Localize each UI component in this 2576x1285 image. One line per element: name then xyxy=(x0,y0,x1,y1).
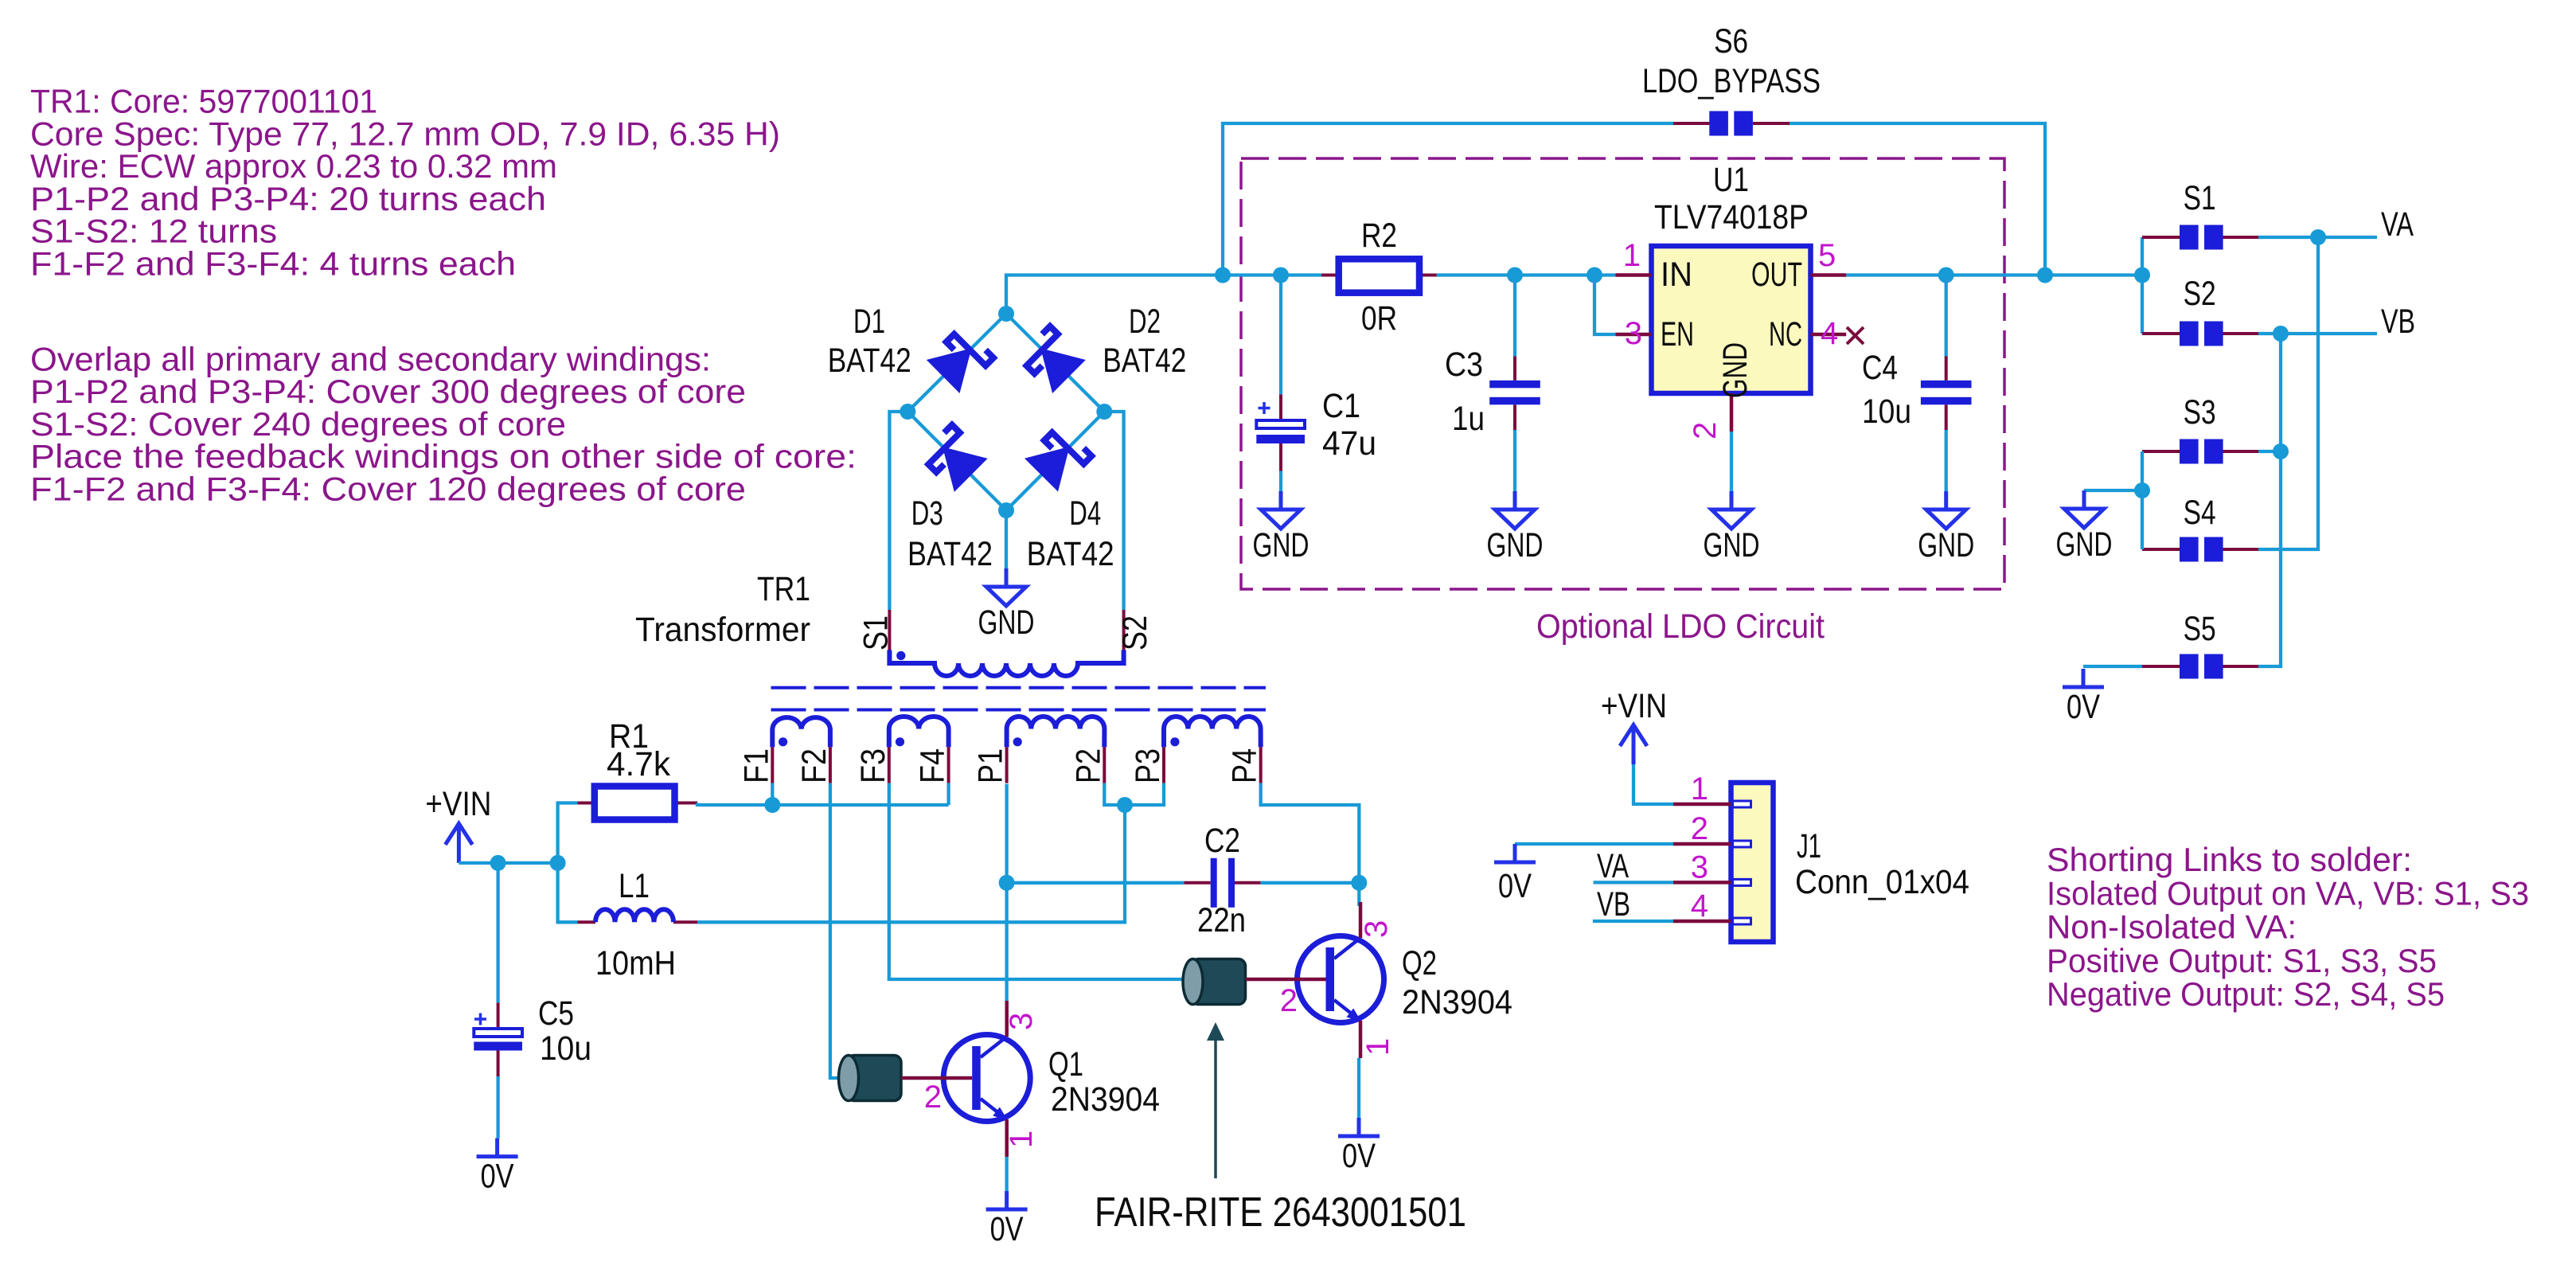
svg-text:+VIN: +VIN xyxy=(425,785,491,823)
svg-text:0R: 0R xyxy=(1361,299,1397,338)
wire S3 output xyxy=(2258,450,2281,453)
junction P2/P3 tap xyxy=(1117,797,1133,813)
U1 pin 4 NC xyxy=(1811,333,1847,337)
svg-text:0V: 0V xyxy=(990,1210,1024,1248)
wire R2 to U1 IN xyxy=(1437,273,1616,276)
svg-text:S5: S5 xyxy=(2184,610,2216,648)
wire GND tap xyxy=(2084,489,2142,492)
TR1 winding P3-P4 xyxy=(1164,717,1261,747)
resistor R2 xyxy=(1339,259,1419,292)
U1 pin 2 GND xyxy=(1730,393,1734,432)
J1 pin 1 xyxy=(1673,803,1731,807)
C5 plus sign xyxy=(474,1017,486,1021)
TR1 core line 2 xyxy=(771,709,1267,712)
J1 pin 2 xyxy=(1673,842,1731,846)
wire C3 to GND xyxy=(1513,430,1516,491)
jumper S5 pins xyxy=(2142,665,2180,668)
optional LDO circuit dashed box xyxy=(1241,158,2004,589)
svg-text:FAIR-RITE 2643001501: FAIR-RITE 2643001501 xyxy=(1095,1189,1466,1236)
svg-text:4.7k: 4.7k xyxy=(607,745,670,783)
wire F3 drop to Q2 bead xyxy=(889,783,1184,979)
wire P2 elbow xyxy=(1104,783,1125,805)
svg-text:D3: D3 xyxy=(911,494,943,533)
svg-text:F3: F3 xyxy=(854,748,892,783)
svg-text:+VIN: +VIN xyxy=(1601,687,1667,725)
capacitor C3 pins xyxy=(1513,357,1516,381)
svg-text:1: 1 xyxy=(1691,771,1708,807)
wire bridge edge D3 xyxy=(907,412,1006,510)
IC U1 body xyxy=(1652,246,1811,393)
U1 pin 1 IN xyxy=(1616,273,1652,277)
wire F4 elbow xyxy=(946,783,950,805)
wire C2 rail right xyxy=(1261,881,1360,885)
wire bridge output riser xyxy=(1006,275,1321,314)
capacitor C5 pins xyxy=(497,1002,500,1028)
wire branch up to R1 xyxy=(558,803,578,863)
svg-text:P2: P2 xyxy=(1069,748,1107,783)
svg-text:S6: S6 xyxy=(1714,22,1748,61)
diode D2 BAT42 xyxy=(1019,326,1084,392)
jumper S1 xyxy=(2180,225,2199,250)
wire S1/S2 input branch xyxy=(2141,237,2144,334)
wire C4 to GND xyxy=(1945,430,1948,491)
ground symbol C3 xyxy=(1513,491,1517,510)
svg-text:C3: C3 xyxy=(1445,346,1483,384)
svg-text:S4: S4 xyxy=(2184,494,2216,532)
capacitor C1 (polarized) xyxy=(1256,420,1305,428)
junction C5 tap xyxy=(490,855,506,871)
svg-text:2: 2 xyxy=(1280,983,1298,1018)
svg-text:0V: 0V xyxy=(481,1158,514,1196)
jumper S3 xyxy=(2180,439,2199,464)
wire S5 input from 0V xyxy=(2083,665,2142,668)
capacitor C4 xyxy=(1921,381,1972,389)
jumper S4 xyxy=(2180,537,2199,562)
jumper S6 xyxy=(1709,111,1728,136)
svg-text:47u: 47u xyxy=(1322,424,1376,463)
svg-text:J1: J1 xyxy=(1797,827,1821,865)
TR1 winding F1-F2 xyxy=(772,717,830,747)
svg-text:Conn_01x04: Conn_01x04 xyxy=(1795,863,1969,901)
svg-text:0V: 0V xyxy=(1498,867,1532,905)
wire bridge edge D2 xyxy=(1006,314,1104,412)
TR1 winding F3-F4 xyxy=(889,717,949,747)
svg-text:D1: D1 xyxy=(853,303,885,341)
capacitor C5 (polarized) xyxy=(474,1029,522,1037)
svg-text:4: 4 xyxy=(1821,316,1838,351)
svg-text:Optional LDO Circuit: Optional LDO Circuit xyxy=(1536,607,1825,646)
svg-text:C5: C5 xyxy=(538,994,574,1033)
svg-text:L1: L1 xyxy=(619,867,650,905)
wire VA vertical to S4 xyxy=(2258,237,2318,549)
power symbol 0V Q2 xyxy=(1357,1118,1361,1136)
wire S1 output to VA xyxy=(2258,236,2377,239)
TR1 polarity dot F1 xyxy=(779,737,787,746)
svg-text:U1: U1 xyxy=(1713,161,1749,199)
junction bridge left xyxy=(900,404,915,420)
svg-text:TR1: TR1 xyxy=(757,570,810,608)
transistor Q1 2N3904 xyxy=(943,1035,1030,1122)
svg-text:TLV74018P: TLV74018P xyxy=(1654,198,1809,236)
svg-text:R2: R2 xyxy=(1361,217,1397,255)
capacitor C2 xyxy=(1211,858,1217,908)
jumper S6 pins xyxy=(1673,122,1709,125)
svg-text:IN: IN xyxy=(1661,256,1692,294)
svg-text:OUT: OUT xyxy=(1751,256,1802,294)
wire P1 drop xyxy=(1005,784,1008,1001)
wire F2 drop to Q1 bead xyxy=(830,783,901,1078)
net label VA wire J1 pin 3 xyxy=(1594,881,1673,884)
svg-text:F1: F1 xyxy=(737,748,775,783)
jumper S1 pins xyxy=(2142,236,2180,239)
svg-text:D4: D4 xyxy=(1069,494,1101,533)
jumper S2 pins xyxy=(2142,332,2180,335)
svg-text:Shorting Links to solder:: Shorting Links to solder: xyxy=(2047,841,2412,878)
svg-text:GND: GND xyxy=(1716,342,1754,398)
wire bridge left to S1 xyxy=(889,412,907,610)
U1 pin 3 EN xyxy=(1616,333,1652,337)
svg-text:2: 2 xyxy=(1691,811,1708,846)
junction F1 on rail xyxy=(764,797,780,813)
svg-text:5: 5 xyxy=(1818,238,1836,273)
svg-text:BAT42: BAT42 xyxy=(907,535,993,573)
TR1 winding P1-P2 xyxy=(1007,717,1105,747)
svg-text:Transformer: Transformer xyxy=(635,611,810,649)
wire +VIN to junctions xyxy=(459,861,557,865)
junction GND tap xyxy=(2134,482,2150,498)
wire C1 to GND xyxy=(1279,471,1282,492)
wire rail to C3 xyxy=(1513,275,1516,357)
TR1 pin S1 xyxy=(888,610,891,650)
svg-text:S3: S3 xyxy=(2184,393,2216,432)
svg-text:3: 3 xyxy=(1359,920,1394,938)
resistor R2 pins xyxy=(1321,274,1339,277)
wire S3/S4 input branch xyxy=(2141,451,2144,549)
wire P3 elbow xyxy=(1125,783,1164,805)
wire C2 rail left xyxy=(1007,881,1185,885)
U1 no-connect cross xyxy=(1847,327,1864,344)
power symbol 0V J1 xyxy=(1513,844,1517,862)
TR1 pin P3 xyxy=(1162,747,1165,783)
svg-text:0V: 0V xyxy=(2067,688,2100,726)
wire P4 elbow to Q2 collector xyxy=(1261,783,1360,883)
svg-text:Negative Output: S2, S4, S5: Negative Output: S2, S4, S5 xyxy=(2047,975,2445,1013)
svg-text:BAT42: BAT42 xyxy=(828,342,911,380)
wire bridge right to S2 xyxy=(1104,412,1123,610)
svg-text:3: 3 xyxy=(1691,850,1708,885)
wire Q1 emitter to 0V xyxy=(1005,1157,1008,1191)
svg-text:2: 2 xyxy=(1688,422,1723,439)
svg-text:C2: C2 xyxy=(1204,822,1240,860)
svg-text:GND: GND xyxy=(1253,526,1309,564)
junction S1/S2 branch xyxy=(2134,268,2150,283)
junction VB xyxy=(2273,326,2289,342)
TR1 polarity dot P1 xyxy=(1013,737,1022,746)
svg-text:C4: C4 xyxy=(1862,349,1898,387)
svg-text:S1: S1 xyxy=(857,615,895,650)
power symbol 0V Q1 xyxy=(1005,1191,1009,1209)
svg-text:10u: 10u xyxy=(1862,393,1911,431)
net label VB wire J1 pin 4 xyxy=(1593,920,1673,923)
svg-text:F2: F2 xyxy=(795,748,833,783)
svg-text:3: 3 xyxy=(1625,316,1642,351)
wire C5 to 0V xyxy=(496,1076,499,1139)
wire bridge edge D1 xyxy=(907,314,1006,412)
svg-text:Q1: Q1 xyxy=(1048,1045,1083,1084)
wire S2 output to VB xyxy=(2258,332,2377,335)
svg-text:P4: P4 xyxy=(1226,748,1264,783)
jumper S3 pins xyxy=(2142,450,2180,453)
svg-text:BAT42: BAT42 xyxy=(1103,342,1186,380)
svg-text:10mH: 10mH xyxy=(595,944,676,982)
svg-text:F1-F2 and F3-F4: 4 turns each: F1-F2 and F3-F4: 4 turns each xyxy=(30,245,516,283)
junction rail C3 xyxy=(1507,268,1523,283)
svg-text:2N3904: 2N3904 xyxy=(1402,983,1512,1021)
inductor L1 xyxy=(595,909,673,922)
diode D3 BAT42 xyxy=(920,425,986,490)
junction rail S6 left leg xyxy=(1215,268,1231,283)
svg-text:4: 4 xyxy=(1691,889,1708,924)
junction bridge right xyxy=(1096,404,1112,420)
connector J1 body xyxy=(1731,783,1774,942)
power symbol 0V S5 xyxy=(2082,669,2086,687)
svg-text:VA: VA xyxy=(2381,205,2414,244)
svg-text:2: 2 xyxy=(924,1080,942,1115)
wire C5 drop xyxy=(496,863,499,1002)
svg-text:VB: VB xyxy=(2381,303,2415,341)
wire 0V to J1 pin 2 xyxy=(1515,842,1673,846)
TR1 polarity dot P3 xyxy=(1170,737,1179,746)
svg-text:3: 3 xyxy=(1004,1013,1039,1030)
svg-text:VB: VB xyxy=(1597,885,1630,924)
ground symbol bridge xyxy=(1005,568,1009,587)
wire L1 rail to P2/P3 center tap xyxy=(697,805,1125,922)
junction P4 C2 rail xyxy=(1351,875,1367,891)
U1 pin 5 OUT xyxy=(1811,273,1847,277)
svg-text:S2: S2 xyxy=(1116,615,1154,650)
wire F1 drop xyxy=(771,783,774,805)
wire Q2 emitter to 0V xyxy=(1357,1058,1360,1118)
J1 pin 4 xyxy=(1673,920,1731,924)
wire EN from rail xyxy=(1594,275,1616,335)
svg-text:C1: C1 xyxy=(1322,387,1360,425)
jumper S5 xyxy=(2180,654,2199,679)
TR1 pin P4 xyxy=(1259,747,1263,783)
junction rail C4 xyxy=(1938,268,1954,283)
svg-text:GND: GND xyxy=(2056,525,2113,564)
junction VA xyxy=(2310,229,2326,245)
junction rail S6 right leg xyxy=(2037,268,2053,283)
svg-text:Positive Output: S1, S3, S5: Positive Output: S1, S3, S5 xyxy=(2047,942,2437,979)
resistor R1 pins xyxy=(577,802,594,805)
ground symbol C1 xyxy=(1279,491,1283,510)
svg-text:VA: VA xyxy=(1597,847,1629,885)
wire +VIN to J1 pin 1 xyxy=(1633,764,1673,804)
svg-text:S1: S1 xyxy=(2184,179,2216,217)
wire VB vertical to S5 xyxy=(2258,334,2281,666)
svg-text:1u: 1u xyxy=(1452,400,1485,438)
wire Q2 collector from junction xyxy=(1357,883,1360,906)
TR1 pin F2 xyxy=(829,747,832,783)
svg-text:P3: P3 xyxy=(1129,748,1167,783)
TR1 pin F3 xyxy=(888,747,891,783)
resistor R1 xyxy=(595,787,675,820)
TR1 pin P2 xyxy=(1103,747,1106,783)
svg-text:GND: GND xyxy=(978,603,1035,642)
svg-text:D2: D2 xyxy=(1129,303,1161,341)
FAIR-RITE callout arrow xyxy=(1214,1039,1217,1178)
wire branch down to L1 xyxy=(558,863,578,922)
wire top bypass right segment xyxy=(1790,123,2045,275)
svg-text:2N3904: 2N3904 xyxy=(1051,1080,1160,1119)
J1 pin 3 xyxy=(1673,881,1731,885)
svg-text:GND: GND xyxy=(1487,526,1544,564)
junction bridge top xyxy=(998,306,1014,322)
jumper S2 xyxy=(2180,322,2199,346)
jumper S4 pins xyxy=(2142,548,2180,551)
capacitor C1 pins xyxy=(1279,394,1282,420)
junction R1/L1 branch xyxy=(550,855,566,871)
svg-text:1: 1 xyxy=(1004,1131,1039,1148)
junction S3 to VB line xyxy=(2273,443,2289,459)
wire R1 to F-windings rail xyxy=(697,803,949,806)
wire bridge bottom to GND xyxy=(1005,510,1008,568)
ground symbol U1 xyxy=(1730,491,1734,510)
inductor L1 pins xyxy=(577,920,595,924)
svg-text:Isolated Output on VA, VB: S1,: Isolated Output on VA, VB: S1, S3 xyxy=(2047,874,2529,912)
svg-text:F4: F4 xyxy=(914,748,952,783)
diode D4 BAT42 xyxy=(1026,424,1091,490)
svg-text:EN: EN xyxy=(1661,315,1694,353)
diode D1 BAT42 xyxy=(928,326,993,392)
wire top bypass left segment xyxy=(1223,123,1673,275)
power symbol 0V C5 xyxy=(495,1139,499,1157)
TR1 polarity dot F3 xyxy=(896,737,904,746)
TR1 pin P1 xyxy=(1005,747,1009,783)
capacitor C3 xyxy=(1489,381,1540,389)
TR1 secondary winding S1-S2 xyxy=(889,650,1123,677)
wire bridge edge D4 xyxy=(1006,412,1104,510)
capacitor C2 pins xyxy=(1184,881,1210,885)
power symbol +VIN left xyxy=(457,823,461,863)
svg-text:P1: P1 xyxy=(972,748,1010,783)
svg-text:GND: GND xyxy=(1704,526,1760,564)
svg-text:LDO_BYPASS: LDO_BYPASS xyxy=(1642,62,1821,100)
TR1 polarity dot S1 xyxy=(896,651,905,660)
TR1 pin F1 xyxy=(771,747,774,783)
svg-text:1: 1 xyxy=(1360,1038,1395,1056)
junction P1 C2 rail xyxy=(999,875,1015,891)
transistor Q2 2N3904 xyxy=(1298,936,1384,1023)
ground symbol right xyxy=(2082,490,2086,509)
svg-text:0V: 0V xyxy=(1342,1137,1376,1175)
wire U1 OUT rail to S1/S2 branch xyxy=(1846,273,2142,276)
junction bridge bottom xyxy=(998,502,1014,518)
junction rail C1 xyxy=(1273,268,1289,283)
wire rail to C1 xyxy=(1279,275,1282,395)
capacitor C4 pins xyxy=(1945,357,1948,381)
TR1 core line 1 xyxy=(771,686,1267,689)
svg-text:10u: 10u xyxy=(540,1029,591,1068)
svg-text:1: 1 xyxy=(1623,238,1641,273)
ferrite bead Q2 (FAIR-RITE) xyxy=(1192,959,1246,1005)
TR1 pin S2 xyxy=(1122,610,1126,650)
power symbol +VIN J1 xyxy=(1632,725,1636,765)
svg-text:F1-F2 and F3-F4: Cover 120 deg: F1-F2 and F3-F4: Cover 120 degrees of co… xyxy=(30,471,746,508)
TR1 pin F4 xyxy=(947,747,950,783)
svg-text:S2: S2 xyxy=(2184,275,2216,313)
junction rail EN xyxy=(1587,268,1602,283)
wire U1 GND pin to ground xyxy=(1730,432,1733,491)
svg-text:Non-Isolated VA:: Non-Isolated VA: xyxy=(2047,908,2297,946)
ferrite bead Q1 (FAIR-RITE) xyxy=(847,1056,901,1101)
svg-text:GND: GND xyxy=(1918,526,1974,564)
C1 plus sign xyxy=(1259,407,1270,410)
ground symbol C4 xyxy=(1944,491,1948,510)
wire rail to C4 xyxy=(1945,275,1948,357)
svg-text:Q2: Q2 xyxy=(1402,944,1437,982)
svg-text:NC: NC xyxy=(1769,315,1802,353)
svg-text:BAT42: BAT42 xyxy=(1027,535,1114,573)
svg-text:22n: 22n xyxy=(1197,901,1246,939)
